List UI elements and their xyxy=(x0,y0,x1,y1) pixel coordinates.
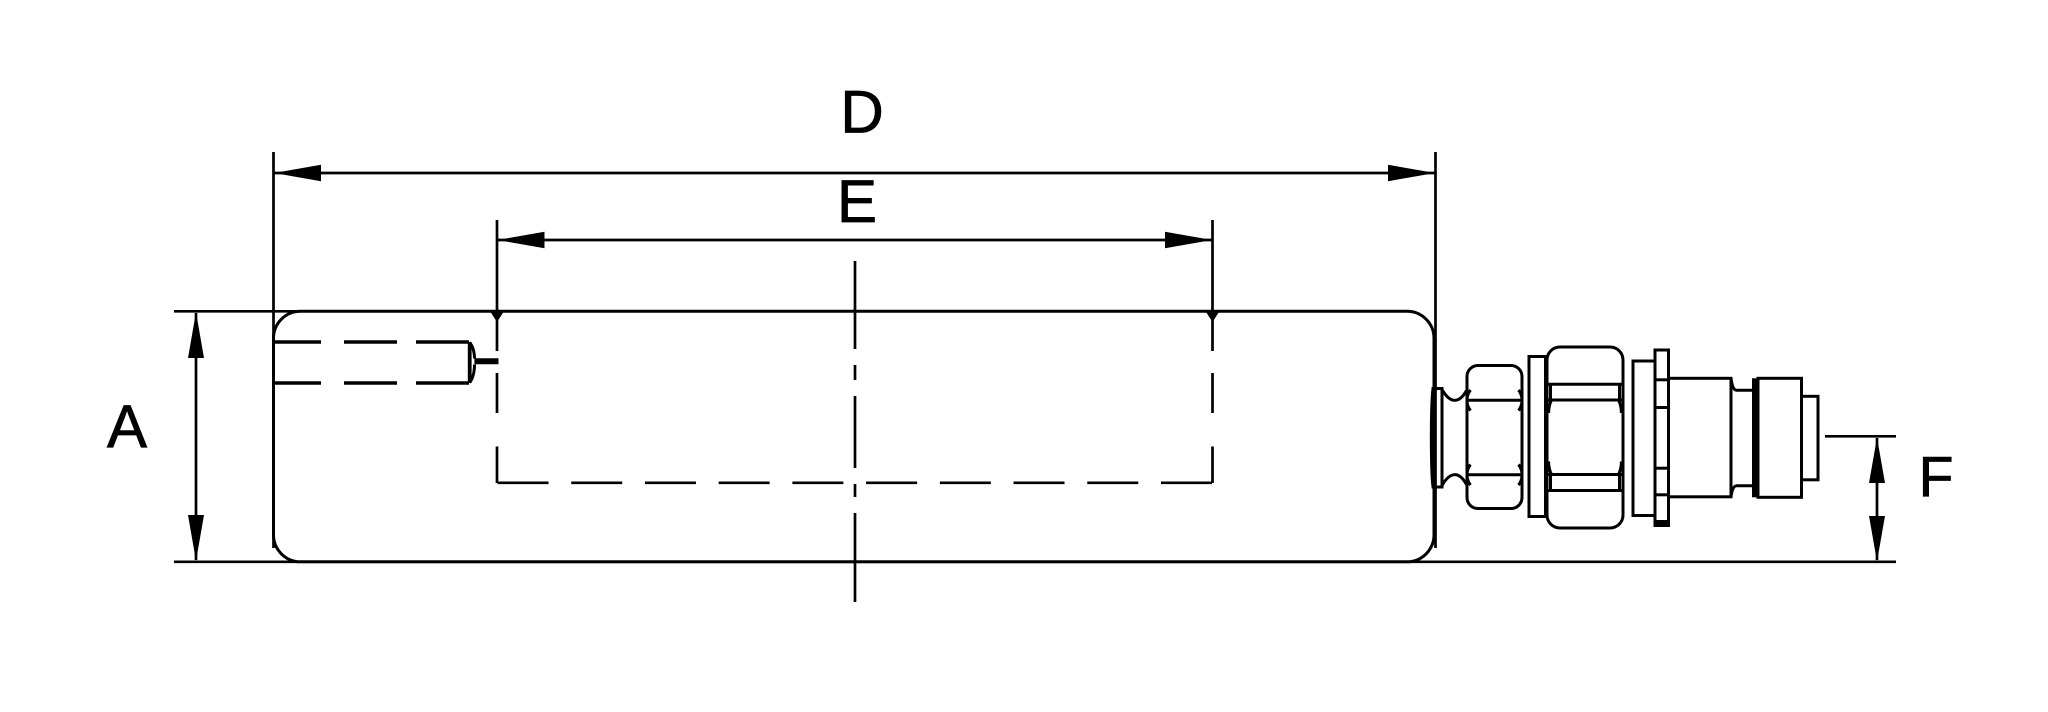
svg-text:F: F xyxy=(1919,446,1954,510)
svg-text:A: A xyxy=(107,393,147,460)
svg-text:D: D xyxy=(840,79,883,146)
svg-text:E: E xyxy=(837,168,877,235)
